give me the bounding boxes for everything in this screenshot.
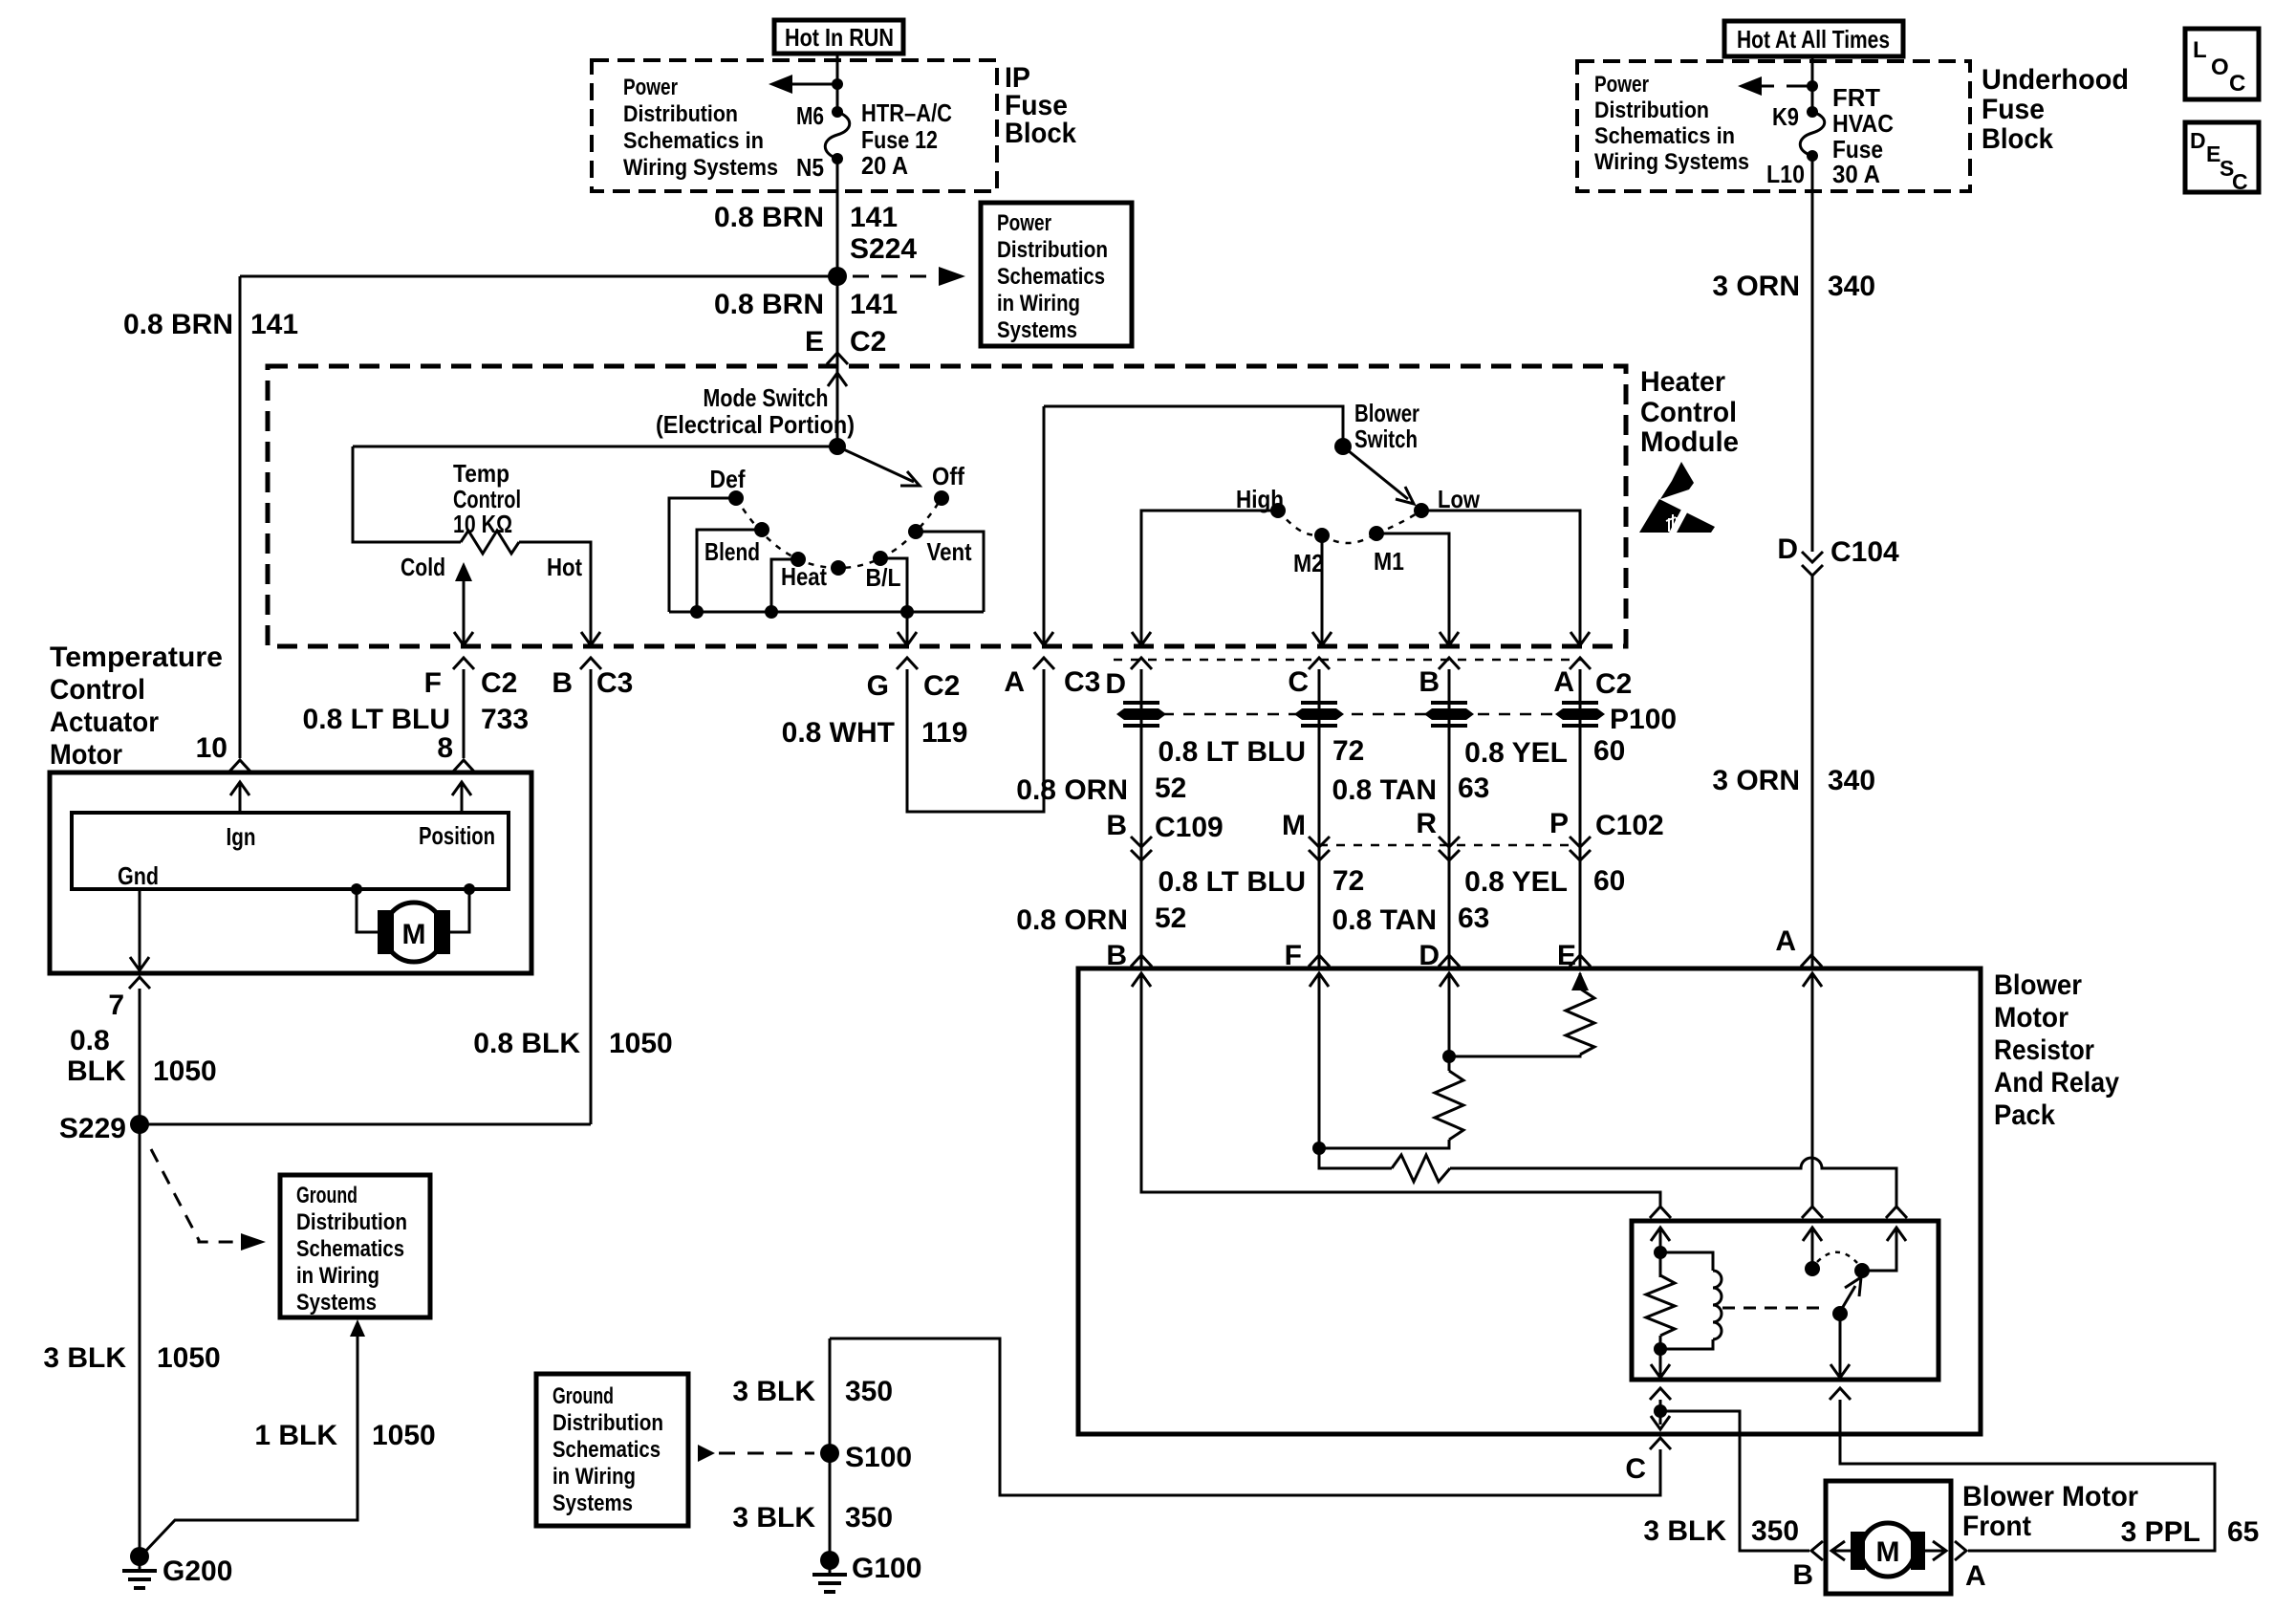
svg-text:Blend: Blend — [704, 537, 760, 566]
connector G C2 symbol — [897, 658, 918, 669]
svg-text:Temp: Temp — [453, 459, 509, 488]
value FRT HVAC Fuse 30 A — [1832, 83, 1894, 188]
connector below relay left — [1650, 1388, 1671, 1400]
wire relay common to motor A loop — [1840, 1400, 2215, 1551]
node F junction — [1312, 1142, 1326, 1155]
arrow D input — [1440, 973, 1459, 1004]
label Temperature Control Actuator Motor — [50, 642, 223, 771]
svg-text:C102: C102 — [1595, 810, 1664, 841]
svg-text:0.8 BRN: 0.8 BRN — [714, 289, 824, 320]
label IP Fuse Block — [1005, 62, 1076, 149]
svg-text:P: P — [1549, 808, 1569, 839]
relay blade arrow — [1840, 1277, 1861, 1312]
node bus junction Blend — [690, 605, 704, 619]
mode switch wiper arm arrow — [837, 446, 920, 486]
svg-text:Schematics in: Schematics in — [1594, 123, 1735, 149]
wire B down to blower box — [1448, 669, 1451, 968]
svg-text:3 BLK: 3 BLK — [732, 1376, 815, 1407]
wire F resistor to relay coil input with hop over A — [1450, 1158, 1896, 1207]
node relay ground junction — [1654, 1404, 1667, 1418]
svg-text:0.8 YEL: 0.8 YEL — [1464, 866, 1568, 898]
note Ground Distribution Schematics in Wiring Systems (S100) — [536, 1374, 688, 1526]
svg-text:Gnd: Gnd — [118, 861, 159, 890]
connector symbols below heater module — [1131, 658, 1152, 669]
value 0.8 TAN 63 (lower) — [1332, 903, 1490, 936]
svg-text:Motor: Motor — [1994, 1002, 2069, 1033]
value 0.8 ORN 52 (upper) — [1016, 772, 1186, 806]
wire 340 C104 to blower pack pin A — [1811, 576, 1814, 968]
svg-text:3 BLK: 3 BLK — [43, 1342, 126, 1374]
wire pivot to temp control loop — [353, 446, 837, 448]
svg-text:BLK: BLK — [67, 1055, 126, 1087]
svg-text:Schematics: Schematics — [552, 1437, 661, 1463]
svg-text:Resistor: Resistor — [1994, 1034, 2094, 1066]
wire E resistor to D junction — [1449, 1055, 1580, 1056]
svg-text:And Relay: And Relay — [1994, 1067, 2119, 1099]
dashed arrow to power distribution (left) — [1738, 76, 1812, 96]
wire 1050 to S229 — [139, 989, 141, 1124]
resistor temp control 10K — [461, 531, 519, 554]
connector C102 symbol on wire B — [1439, 837, 1460, 860]
svg-text:10: 10 — [196, 732, 227, 764]
svg-text:63: 63 — [1458, 772, 1489, 804]
svg-text:FRT: FRT — [1832, 83, 1880, 112]
node bus junction Heat — [765, 605, 778, 619]
wire junction to motor B branch — [1660, 1411, 1809, 1551]
connector C104 symbol — [1802, 552, 1823, 576]
value 0.8 BLK 1050 (right) — [473, 1028, 672, 1059]
svg-text:Wiring Systems: Wiring Systems — [623, 155, 778, 181]
svg-text:7: 7 — [108, 990, 124, 1021]
grommet on wire C — [1294, 708, 1344, 720]
svg-text:72: 72 — [1332, 865, 1364, 897]
svg-text:Hot In RUN: Hot In RUN — [785, 23, 894, 52]
ground G200 — [122, 1547, 157, 1588]
pin D connector C104 — [1777, 533, 1899, 568]
wire into mode switch with arrow — [828, 366, 847, 446]
wire D down to blower box — [1140, 669, 1143, 968]
IP Fuse Block dashed outline — [592, 60, 997, 191]
svg-text:O: O — [2211, 54, 2229, 80]
svg-text:Block: Block — [1005, 118, 1076, 149]
wire D resistor to F junction — [1319, 1140, 1449, 1148]
svg-text:C: C — [2229, 71, 2245, 97]
svg-text:Temperature: Temperature — [50, 642, 223, 673]
resistor F (low tap) — [1392, 1155, 1450, 1182]
connector at relay left input — [1650, 1207, 1671, 1218]
node M2 — [1314, 528, 1330, 543]
svg-text:0.8 YEL: 0.8 YEL — [1464, 737, 1568, 769]
svg-text:A: A — [1775, 925, 1796, 957]
node D-E junction — [1442, 1050, 1456, 1063]
svg-text:Blower Motor: Blower Motor — [1962, 1481, 2138, 1512]
svg-text:119: 119 — [921, 717, 967, 749]
connector row C2 labels D C B A — [1105, 666, 1632, 700]
svg-text:Underhood: Underhood — [1982, 64, 2129, 96]
svg-text:0.8 ORN: 0.8 ORN — [1016, 904, 1128, 936]
svg-text:Switch: Switch — [1354, 424, 1418, 453]
connector E C2 symbol — [827, 353, 848, 364]
wire Heat branch — [771, 559, 798, 612]
wire 733 down to actuator pin 8 — [463, 669, 466, 758]
arrow relay common input — [1803, 1228, 1822, 1269]
svg-text:G200: G200 — [162, 1556, 232, 1587]
wire S100 riser — [829, 1338, 832, 1560]
wire mode output down with arrow — [898, 612, 917, 645]
svg-text:Systems: Systems — [552, 1490, 633, 1516]
svg-text:Power: Power — [1594, 72, 1649, 98]
arrow relay coil output — [1651, 1349, 1670, 1378]
svg-text:Blower: Blower — [1354, 399, 1419, 427]
node relay NO contact — [1854, 1263, 1870, 1278]
value 3 BLK 350 (below S100) — [732, 1502, 893, 1534]
value 0.8 LT BLU 72 (lower) — [1159, 865, 1365, 898]
svg-text:141: 141 — [250, 309, 298, 340]
svg-text:1050: 1050 — [157, 1342, 221, 1374]
DESC box — [2185, 122, 2259, 194]
wire relay output to junction — [1659, 1400, 1662, 1425]
ground G100 — [812, 1551, 847, 1592]
svg-text:C: C — [1288, 666, 1309, 698]
svg-text:1050: 1050 — [153, 1055, 217, 1087]
svg-text:M6: M6 — [796, 101, 824, 130]
connector C102 symbol on wire C — [1309, 837, 1330, 860]
dashed arrow to power distribution box — [853, 267, 965, 286]
value 3 ORN 340 (lower) — [1712, 765, 1875, 796]
value 0.8 TAN 63 (upper) — [1332, 772, 1490, 806]
svg-text:10 KΩ: 10 KΩ — [453, 510, 512, 538]
label Underhood Fuse Block — [1982, 64, 2129, 155]
arrow relay output down — [1830, 1314, 1850, 1378]
svg-text:B/L: B/L — [866, 563, 901, 592]
wire F down — [1318, 1004, 1321, 1168]
svg-text:R: R — [1416, 808, 1437, 839]
wire to blower switch pivot — [1044, 406, 1343, 446]
dashed connector line C2 — [1114, 659, 1582, 662]
svg-text:1050: 1050 — [372, 1420, 436, 1451]
svg-text:C2: C2 — [923, 670, 960, 702]
svg-text:Power: Power — [623, 75, 678, 100]
svg-text:350: 350 — [1751, 1515, 1799, 1547]
node relay coil top — [1654, 1246, 1667, 1259]
connector at relay common input — [1802, 1207, 1823, 1218]
svg-text:1 BLK: 1 BLK — [254, 1420, 337, 1451]
svg-text:M1: M1 — [1374, 547, 1404, 576]
pin E connector C2 — [805, 326, 886, 358]
arrow Ign input — [230, 782, 249, 813]
value 1 BLK 1050 — [254, 1420, 435, 1451]
dashed arrow S229 to ground distribution note — [151, 1149, 266, 1251]
svg-text:733: 733 — [481, 704, 529, 735]
wire B to relay — [1141, 1004, 1660, 1207]
svg-text:350: 350 — [845, 1376, 893, 1407]
svg-text:C2: C2 — [850, 326, 886, 358]
pin P connector C102 — [1549, 808, 1664, 841]
svg-text:B: B — [1792, 1559, 1813, 1591]
wire 141 from S224 to left — [240, 275, 837, 278]
wire 350 from pack pin C to S100 — [830, 1338, 1660, 1495]
svg-text:Distribution: Distribution — [552, 1410, 663, 1436]
svg-text:60: 60 — [1593, 735, 1625, 767]
svg-text:M: M — [1282, 810, 1306, 841]
wire 1050 down from B C3 — [590, 669, 593, 1124]
svg-text:20 A: 20 A — [861, 151, 908, 180]
connector B C3 symbol — [580, 658, 601, 669]
wire B/L branch — [880, 558, 907, 612]
svg-text:S229: S229 — [59, 1113, 126, 1144]
svg-text:Fuse 12: Fuse 12 — [861, 125, 938, 154]
svg-text:Distribution: Distribution — [623, 101, 738, 127]
connector symbol at pin 8 — [453, 760, 474, 772]
value 3 BLK 350 (motor branch) — [1643, 1515, 1799, 1547]
grommet P100 dashed line — [1141, 713, 1572, 716]
arrow motor B terminal — [1831, 1541, 1851, 1560]
connector A C3 symbol — [1033, 658, 1054, 669]
relay coil — [1660, 1252, 1722, 1349]
svg-text:Ign: Ign — [227, 822, 256, 851]
dashed arrow note to S100 — [698, 1445, 814, 1462]
connector motor A — [1955, 1541, 1966, 1560]
node mid position — [831, 560, 846, 576]
svg-text:3 BLK: 3 BLK — [732, 1502, 815, 1534]
svg-text:8: 8 — [437, 732, 453, 764]
label Blower Motor Resistor And Relay Pack — [1994, 969, 2119, 1131]
svg-text:Def: Def — [710, 465, 746, 493]
connector pin 7 symbol — [129, 977, 150, 989]
wire C down to blower box — [1318, 669, 1321, 968]
svg-text:0.8 WHT: 0.8 WHT — [782, 717, 895, 749]
node B/L — [873, 551, 888, 566]
connector pin C — [1650, 1438, 1671, 1449]
Blower Motor Resistor And Relay Pack box — [1078, 968, 1981, 1434]
svg-text:Systems: Systems — [296, 1290, 377, 1316]
svg-text:0.8 LT BLU: 0.8 LT BLU — [303, 704, 450, 735]
svg-text:C3: C3 — [596, 667, 633, 699]
svg-text:340: 340 — [1828, 271, 1875, 302]
svg-text:G: G — [867, 670, 889, 702]
wire 3 BLK 1050 down to G200 — [139, 1124, 141, 1556]
label Hot At All Times box — [1724, 21, 1903, 56]
resistor D (med tap) — [1435, 1071, 1463, 1140]
Underhood Fuse Block dashed outline — [1577, 61, 1970, 191]
arrow Position input — [452, 782, 471, 813]
node relay coil bottom — [1654, 1342, 1667, 1356]
wire 119 U-loop G to A — [907, 669, 1044, 812]
svg-text:M: M — [1876, 1536, 1900, 1568]
value 3 PPL 65 — [2121, 1516, 2260, 1548]
svg-text:Vent: Vent — [927, 537, 972, 566]
svg-text:0.8 LT BLU: 0.8 LT BLU — [1159, 866, 1306, 898]
svg-text:Hot At All Times: Hot At All Times — [1737, 25, 1890, 54]
svg-text:B: B — [552, 667, 573, 699]
connector symbol at pin 10 — [229, 760, 250, 772]
label Temp Control 10 K ohm — [453, 459, 521, 538]
grommet on wire D — [1116, 708, 1166, 720]
wire Low branch to A — [1421, 511, 1580, 645]
wire from Hot In RUN to fuse — [836, 54, 839, 112]
note Power Distribution Schematics in Wiring Systems box (right of S224) — [981, 203, 1132, 346]
node S100 — [820, 1444, 839, 1463]
svg-text:0.8 TAN: 0.8 TAN — [1332, 904, 1437, 936]
svg-text:B: B — [1106, 810, 1127, 841]
svg-text:F: F — [424, 667, 442, 699]
arrow motor A terminal — [1925, 1541, 1946, 1560]
svg-text:Module: Module — [1640, 426, 1739, 458]
svg-text:in Wiring: in Wiring — [296, 1263, 379, 1289]
svg-text:72: 72 — [1332, 735, 1364, 767]
svg-text:0.8 ORN: 0.8 ORN — [1016, 774, 1128, 806]
svg-text:Pack: Pack — [1994, 1099, 2055, 1131]
svg-text:63: 63 — [1458, 903, 1489, 934]
svg-text:D: D — [2190, 128, 2206, 153]
wire 340 fuse to C104 — [1811, 156, 1814, 552]
value 0.8 ORN 52 (lower) — [1016, 903, 1186, 936]
svg-text:Heat: Heat — [781, 562, 827, 591]
svg-text:E: E — [805, 326, 824, 358]
wire High branch to D — [1141, 511, 1278, 645]
Temperature Control Actuator Motor box — [50, 772, 531, 973]
grommet on wire B — [1424, 708, 1474, 720]
dashed link coil to blade — [1722, 1307, 1828, 1310]
value 3 BLK 350 (above S100) — [732, 1376, 893, 1407]
blower switch wiper arm arrow — [1343, 446, 1414, 504]
arrow A input — [1803, 973, 1822, 1004]
wire 1 BLK 1050 from note to G200 — [141, 1319, 365, 1556]
dashed connector line C102 — [1319, 844, 1580, 847]
node Blend — [754, 522, 769, 537]
node Vent — [908, 524, 923, 539]
wire M1 branch to B — [1376, 533, 1449, 645]
label Heater Control Module — [1640, 366, 1739, 458]
svg-text:C3: C3 — [1064, 666, 1100, 698]
Heater Control Module dashed outline — [268, 366, 1626, 646]
node mode switch pivot — [829, 438, 846, 455]
arrow F input — [1310, 973, 1329, 1004]
svg-text:HVAC: HVAC — [1832, 109, 1894, 138]
svg-text:C2: C2 — [481, 667, 517, 699]
wire A down to blower box — [1579, 669, 1582, 968]
node relay blade pivot — [1832, 1306, 1848, 1321]
value 0.8 BRN 141 (left branch) — [123, 309, 298, 340]
svg-text:Wiring Systems: Wiring Systems — [1594, 149, 1749, 175]
grommet on wire A — [1555, 708, 1605, 720]
resistor E (high speed tap) — [1566, 989, 1594, 1055]
value 3 ORN 340 (upper) — [1712, 271, 1875, 302]
value 0.8 LT BLU 72 (upper) — [1159, 735, 1365, 768]
pin F connector C2 — [424, 667, 518, 699]
svg-text:Schematics: Schematics — [296, 1236, 404, 1262]
svg-text:Control: Control — [50, 674, 145, 706]
svg-text:141: 141 — [850, 202, 898, 233]
svg-text:Systems: Systems — [997, 317, 1077, 343]
svg-text:(Electrical Portion): (Electrical Portion) — [656, 410, 855, 439]
ESD sensitive symbol — [1639, 462, 1715, 534]
svg-text:0.8 BRN: 0.8 BRN — [714, 202, 824, 233]
value 0.8 YEL 60 (lower) — [1464, 865, 1625, 898]
svg-text:HTR–A/C: HTR–A/C — [861, 98, 952, 127]
svg-text:S224: S224 — [850, 233, 917, 265]
svg-text:K9: K9 — [1772, 102, 1799, 131]
svg-text:Heater: Heater — [1640, 366, 1725, 398]
blower positions dashed arc — [1278, 511, 1421, 543]
wire Gnd output with arrow — [130, 889, 149, 970]
wire 141 from S224 down to heater module — [836, 276, 839, 366]
svg-text:350: 350 — [845, 1502, 893, 1534]
svg-text:C: C — [1625, 1453, 1646, 1485]
wire Def branch — [669, 498, 736, 612]
svg-text:0.8: 0.8 — [70, 1025, 110, 1056]
wire A to relay common — [1811, 1004, 1814, 1207]
value 0.8 BRN 141 (below S224) — [714, 289, 898, 320]
svg-text:L10: L10 — [1766, 160, 1805, 188]
svg-text:A: A — [1004, 666, 1025, 698]
svg-text:Distribution: Distribution — [296, 1209, 407, 1235]
svg-text:Mode Switch: Mode Switch — [704, 383, 829, 412]
connector symbols at blower pack inputs — [1131, 955, 1152, 967]
value 3 BLK 1050 — [43, 1342, 220, 1374]
pin B connector C109 — [1106, 810, 1223, 843]
value 0.8 LT BLU 733 — [303, 704, 530, 735]
connector C102 symbol on wire A — [1570, 837, 1591, 860]
wire Blend branch — [697, 530, 762, 612]
svg-text:0.8 LT BLU: 0.8 LT BLU — [1159, 736, 1306, 768]
Blower Motor Front box — [1826, 1481, 1951, 1594]
svg-text:Front: Front — [1962, 1511, 2031, 1542]
svg-text:Motor: Motor — [50, 739, 122, 771]
svg-text:Schematics in: Schematics in — [623, 128, 764, 154]
svg-text:C: C — [2232, 169, 2248, 194]
pin G connector C2 — [867, 670, 961, 702]
svg-text:Position: Position — [419, 821, 495, 850]
arrow relay left input — [1651, 1228, 1670, 1252]
svg-text:Power: Power — [997, 210, 1051, 236]
pin A connector C3 — [1004, 666, 1100, 698]
svg-text:C109: C109 — [1155, 812, 1224, 843]
node blower switch pivot — [1334, 438, 1352, 455]
node High — [1270, 503, 1286, 518]
value 0.8 YEL 60 (upper) — [1464, 735, 1625, 769]
node M1 — [1369, 526, 1384, 541]
svg-text:Control: Control — [1640, 397, 1737, 428]
note Power Distribution Schematics in Wiring Systems (IP) — [623, 75, 778, 181]
connector at relay coil input — [1886, 1207, 1907, 1218]
wire M2 branch to C — [1321, 535, 1324, 645]
fuse F12 HTR-A/C 20A — [825, 106, 850, 164]
svg-text:Hot: Hot — [547, 553, 582, 581]
svg-text:C104: C104 — [1830, 536, 1899, 568]
value 0.8 BLK 1050 (left) — [67, 1025, 217, 1087]
LOC box — [2185, 29, 2259, 99]
svg-text:3 ORN: 3 ORN — [1712, 271, 1800, 302]
svg-text:A: A — [1965, 1560, 1986, 1592]
wire resistor to Hot corner — [519, 542, 591, 645]
svg-text:in Wiring: in Wiring — [552, 1464, 636, 1490]
svg-text:141: 141 — [850, 289, 898, 320]
value HTR-A/C Fuse 12 20 A — [861, 98, 952, 180]
svg-text:30 A: 30 A — [1832, 160, 1880, 188]
wire NO contact to coil feed — [1862, 1228, 1896, 1271]
wire 141 down left side to actuator pin 10 — [239, 276, 242, 758]
note Power Distribution Schematics in Wiring Systems (underhood) — [1594, 72, 1749, 175]
pin B connector C3 — [552, 667, 633, 699]
node Low — [1414, 503, 1429, 518]
svg-text:0.8 TAN: 0.8 TAN — [1332, 774, 1437, 806]
connector C109 symbol on wire D — [1131, 837, 1152, 860]
relay box — [1632, 1221, 1939, 1380]
svg-text:Blower: Blower — [1994, 969, 2082, 1001]
svg-text:60: 60 — [1593, 865, 1625, 897]
fuse FRT HVAC 30A — [1800, 106, 1825, 162]
